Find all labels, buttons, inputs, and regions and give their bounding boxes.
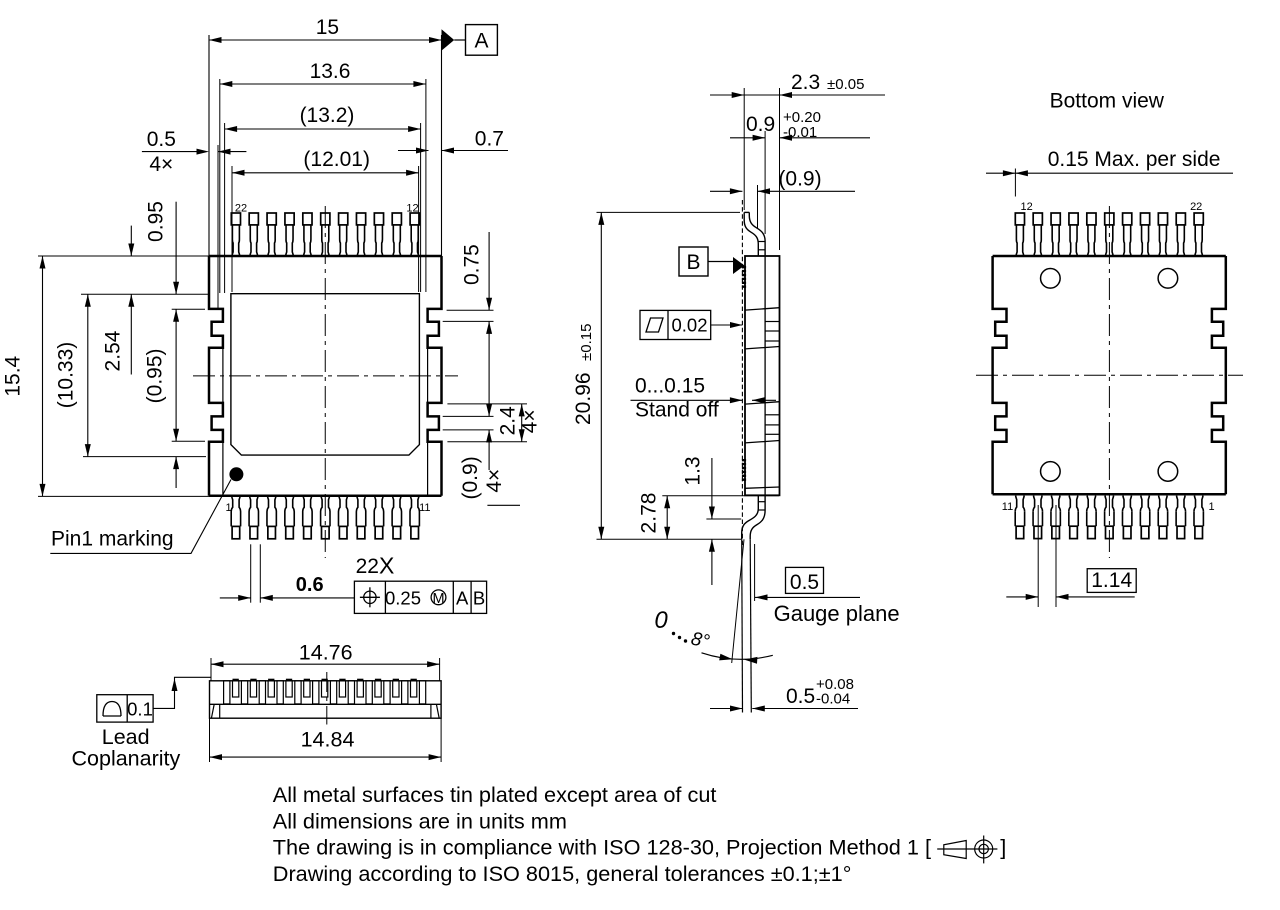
datum B flag xyxy=(679,247,708,276)
bottom view centerline horizontal xyxy=(976,374,1243,376)
bottom view centerline vertical xyxy=(1108,206,1110,558)
front view body outline xyxy=(210,681,442,718)
dim 14.84 xyxy=(210,756,442,758)
angle arc xyxy=(702,653,773,660)
side view lead foot below gauge plane xyxy=(741,539,744,712)
dim 0.6 extension lines xyxy=(250,544,252,602)
dim 13.6 extension lines xyxy=(219,79,221,293)
dim 2.3 +-0.05 xyxy=(710,94,744,96)
svg-text:±0.05: ±0.05 xyxy=(827,76,864,93)
pin1 marking dot xyxy=(229,467,243,481)
svg-text:13.6: 13.6 xyxy=(310,60,351,83)
svg-text:14.76: 14.76 xyxy=(299,641,353,665)
feature control frame position 0.25 M A B xyxy=(354,581,486,613)
svg-text:0.5: 0.5 xyxy=(147,128,176,151)
svg-text:1: 1 xyxy=(226,502,232,514)
svg-text:0...0.15: 0...0.15 xyxy=(635,375,705,398)
dim 1.3 xyxy=(711,458,713,519)
dim 14.84 extension lines xyxy=(209,718,211,762)
svg-text:-0.04: -0.04 xyxy=(816,691,850,708)
svg-text:0.75: 0.75 xyxy=(461,244,484,285)
dim 15 xyxy=(209,39,442,41)
svg-text:Drawing according to ISO 8015,: Drawing according to ISO 8015, general t… xyxy=(273,861,852,886)
svg-text:2.78: 2.78 xyxy=(638,493,661,534)
svg-text:(0.95): (0.95) xyxy=(143,348,166,403)
dim 2.4 4x xyxy=(521,404,523,442)
lead coplanarity leader xyxy=(153,677,211,708)
svg-text:All metal surfaces tin plated: All metal surfaces tin plated except are… xyxy=(273,782,717,807)
svg-text:(0.9): (0.9) xyxy=(459,456,482,499)
top view slug edge lines xyxy=(222,348,224,403)
gauge plane box 0.5 xyxy=(786,567,824,593)
top view centerline horizontal xyxy=(193,375,458,377)
svg-text:22: 22 xyxy=(1190,201,1202,213)
svg-text:0.5: 0.5 xyxy=(786,685,815,708)
top view top pin row (pins 22..12) xyxy=(231,213,240,225)
left extension lines for vertical dims xyxy=(38,255,209,257)
dim 20.96 +-0.15 xyxy=(600,212,602,539)
svg-text:1: 1 xyxy=(1209,501,1215,513)
svg-text:0.02: 0.02 xyxy=(671,315,707,336)
right extension lines 2.4 xyxy=(447,403,527,405)
dim 1.14 xyxy=(1006,596,1038,598)
side view mold gate serrations xyxy=(742,266,746,288)
svg-text:(12.01): (12.01) xyxy=(303,148,370,171)
svg-text:20.96: 20.96 xyxy=(572,372,595,425)
side view 8 degree splay line xyxy=(732,539,744,663)
svg-text:Gauge plane: Gauge plane xyxy=(774,601,900,626)
projection method symbol xyxy=(944,841,966,859)
front view lead-to-body rail line xyxy=(210,703,442,705)
dim 20.96 extension top xyxy=(597,211,741,213)
front view lead comb xyxy=(224,681,230,704)
svg-text:1.14: 1.14 xyxy=(1091,569,1132,592)
svg-text:±0.15: ±0.15 xyxy=(578,324,595,361)
dim (12.01) xyxy=(232,172,419,174)
dim 1.14 extension lines xyxy=(1037,505,1039,607)
svg-text:X: X xyxy=(379,553,394,579)
svg-text:22: 22 xyxy=(356,555,379,578)
dim 14.76 xyxy=(211,663,440,665)
dim 15 extension lines xyxy=(208,35,210,256)
svg-text:2.3: 2.3 xyxy=(791,71,820,94)
top view centerline vertical xyxy=(324,206,326,558)
side view gauge tick xyxy=(754,544,756,601)
side view body outline xyxy=(745,256,780,495)
side dim extension lines top xyxy=(743,88,745,210)
svg-text:2.54: 2.54 xyxy=(102,330,125,371)
side view bottom lead xyxy=(742,496,759,540)
dim 0.5 4x xyxy=(217,145,219,309)
svg-text:22: 22 xyxy=(235,203,247,215)
dim 0.6 xyxy=(220,597,251,599)
svg-text:A: A xyxy=(456,588,469,609)
dim 0.75 xyxy=(488,232,490,310)
dim (13.2) xyxy=(225,128,421,130)
dim (10.33) xyxy=(87,294,89,456)
svg-text:Stand off: Stand off xyxy=(635,399,719,422)
dim 13.6 xyxy=(220,83,426,85)
top view body outline xyxy=(209,255,442,258)
front view end posts and chamfers xyxy=(219,704,221,718)
svg-text:Lead: Lead xyxy=(102,725,150,749)
svg-text:4×: 4× xyxy=(519,409,542,433)
side dim extension lines bottom xyxy=(662,495,779,497)
bottom view bottom pin row (11..1) xyxy=(1016,526,1024,538)
dim 14.76 extension lines xyxy=(210,658,212,681)
svg-text:12: 12 xyxy=(1020,201,1032,213)
dim 15.4 xyxy=(42,256,44,496)
svg-text:0.5: 0.5 xyxy=(790,571,819,594)
svg-text:A: A xyxy=(474,29,488,52)
svg-text:0.15 Max. per side: 0.15 Max. per side xyxy=(1048,148,1221,171)
svg-text:(13.2): (13.2) xyxy=(300,104,355,127)
side view lead plane line xyxy=(764,256,766,495)
svg-text:Coplanarity: Coplanarity xyxy=(72,747,181,771)
dim 0.5 +0.08 -0.04 bottom xyxy=(710,708,743,710)
side view tab rung lines upper xyxy=(765,321,779,323)
svg-text:(10.33): (10.33) xyxy=(55,342,78,409)
side view recess band lines xyxy=(745,308,780,310)
top view inner cavity outline xyxy=(231,294,420,455)
dim (12.01) extension lines xyxy=(231,166,233,292)
dim (13.2) extension lines xyxy=(224,123,226,293)
svg-text:4×: 4× xyxy=(483,469,506,493)
parallelism feature frame 0.02 xyxy=(640,310,711,339)
svg-text:15: 15 xyxy=(316,16,339,39)
dim 0.9 +0.20 -0.01 xyxy=(730,137,765,139)
svg-text:11: 11 xyxy=(1002,501,1013,513)
svg-text:M: M xyxy=(432,591,444,607)
lead coplanarity frame 0.1 xyxy=(97,695,153,722)
bottom view top pin row (12..22) xyxy=(1015,213,1024,225)
svg-text:12: 12 xyxy=(406,203,418,215)
dim 0.7 xyxy=(398,150,429,152)
svg-text:14.84: 14.84 xyxy=(301,728,355,752)
svg-text:0.95: 0.95 xyxy=(145,201,168,242)
parallelism leader arrow xyxy=(711,324,742,326)
svg-text:0: 0 xyxy=(654,607,668,634)
front view centerline xyxy=(326,672,328,725)
dim 2.78 xyxy=(666,496,668,540)
dim 2.54 xyxy=(130,226,132,256)
dim 0.95 / (0.95) shared line xyxy=(175,202,177,295)
gauge plane leader xyxy=(755,596,860,598)
svg-text:0.7: 0.7 xyxy=(475,128,504,151)
svg-text:B: B xyxy=(473,588,485,609)
svg-text:B: B xyxy=(686,251,700,274)
svg-text:0.25: 0.25 xyxy=(385,588,421,609)
side view tab rung lines lower xyxy=(765,414,779,416)
svg-text:4×: 4× xyxy=(149,153,173,176)
svg-text:The drawing is in compliance w: The drawing is in compliance with ISO 12… xyxy=(273,835,931,860)
svg-text:0.9: 0.9 xyxy=(746,113,775,136)
svg-text:-0.01: -0.01 xyxy=(783,124,817,141)
dim (0.9) top xyxy=(710,190,742,192)
side view top lead xyxy=(744,211,749,213)
svg-text:Bottom view: Bottom view xyxy=(1050,89,1165,112)
boxed 1.14 label xyxy=(1087,569,1136,593)
dim (0.9) 4x xyxy=(486,404,492,417)
svg-text:11: 11 xyxy=(419,502,430,514)
top view bottom pin row (pins 1..11) xyxy=(232,526,240,538)
svg-text:2.4: 2.4 xyxy=(497,406,520,436)
svg-text:(0.9): (0.9) xyxy=(778,168,821,191)
right extension lines 0.75 xyxy=(447,309,494,311)
bottom view ejector marks circles xyxy=(1041,269,1061,289)
svg-text:0.6: 0.6 xyxy=(296,574,324,596)
datum A flag xyxy=(442,29,455,50)
svg-text:0.1: 0.1 xyxy=(127,699,153,720)
bottom view body outline xyxy=(993,255,1226,258)
svg-text:15.4: 15.4 xyxy=(2,355,25,396)
svg-text:All dimensions are in units mm: All dimensions are in units mm xyxy=(273,808,567,833)
svg-text:]: ] xyxy=(1000,835,1006,860)
svg-text:1.3: 1.3 xyxy=(682,456,705,485)
side view seating plane dashed line xyxy=(741,200,743,545)
svg-text:Pin1 marking: Pin1 marking xyxy=(51,528,174,551)
